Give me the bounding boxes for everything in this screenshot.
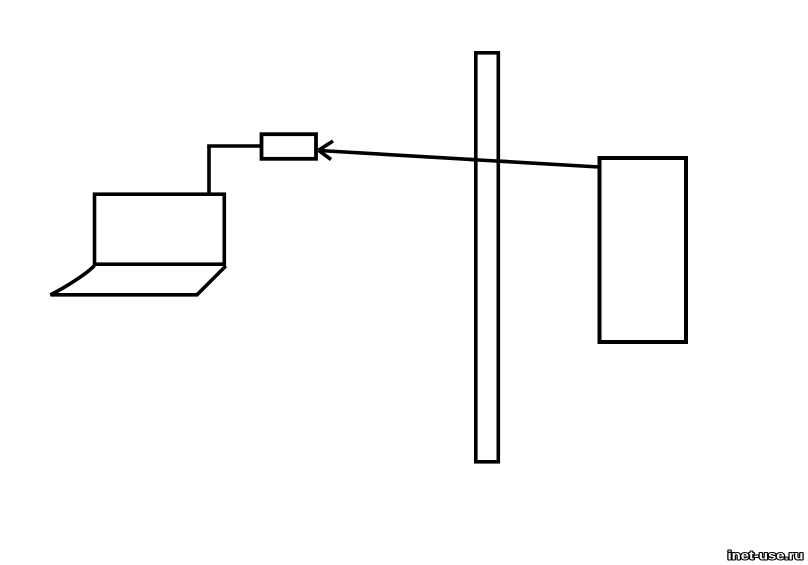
router box bbox=[600, 158, 687, 342]
laptop screen bbox=[95, 194, 225, 264]
laptop base bbox=[51, 266, 226, 295]
wall crossing wire segment bbox=[470, 160, 505, 162]
wall bbox=[476, 53, 499, 462]
wire vertical segment bbox=[207, 146, 211, 194]
svg-text:inet-use.ru: inet-use.ru bbox=[728, 549, 804, 563]
arrowhead lower barb bbox=[319, 150, 332, 159]
arrowhead upper barb bbox=[319, 141, 334, 150]
wire horizontal segment bbox=[207, 144, 261, 148]
arrow shaft bbox=[319, 151, 599, 168]
adapter box bbox=[262, 134, 317, 159]
